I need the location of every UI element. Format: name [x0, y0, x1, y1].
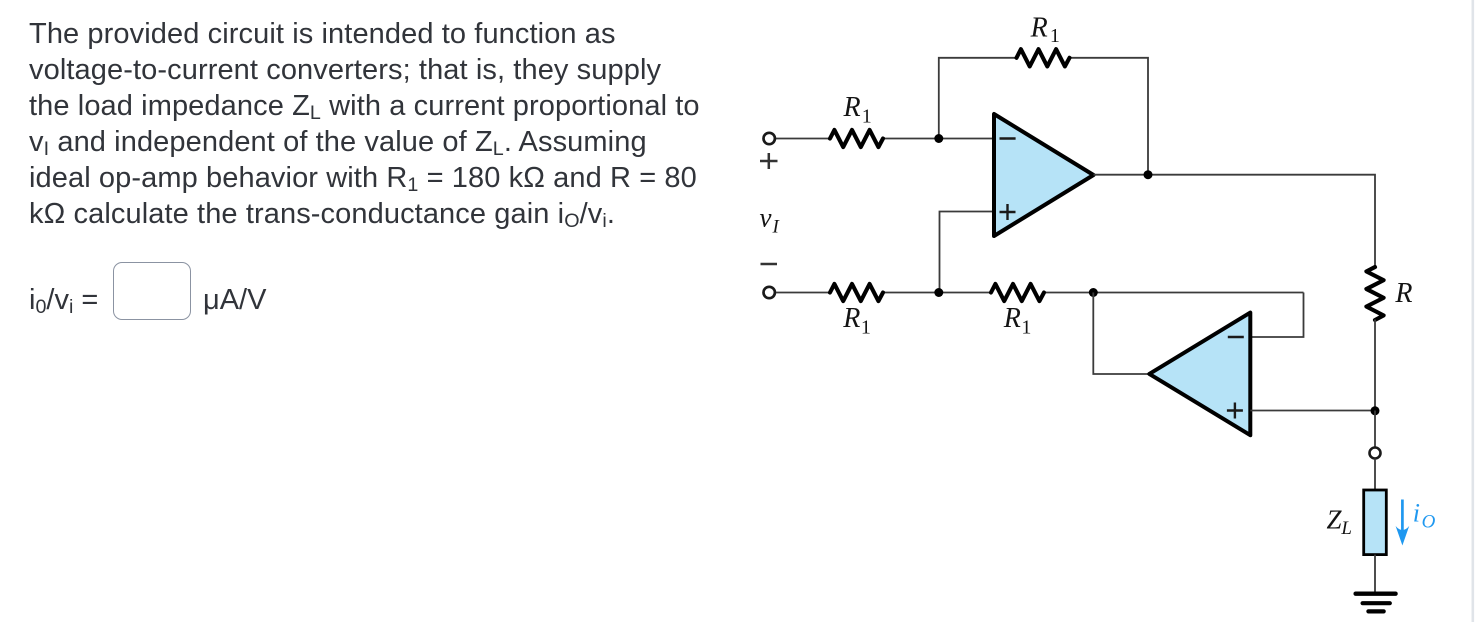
svg-text:1: 1 [1050, 25, 1060, 47]
plus sign at input [760, 153, 778, 169]
minus sign inside U2 [1228, 336, 1244, 338]
wire: load node down to terminal [1374, 411, 1376, 448]
wire: bottom input wire [776, 292, 1304, 294]
svg-text:R: R [1003, 303, 1021, 334]
wire: ZL to ground [1374, 555, 1376, 592]
svg-text:R: R [843, 92, 861, 123]
svg-text:1: 1 [1021, 316, 1031, 338]
resistor R1 (feedback top) [1017, 49, 1070, 66]
svg-text:R: R [842, 303, 860, 334]
svg-text:R: R [1030, 12, 1048, 43]
wire: terminal to ZL [1374, 459, 1376, 491]
terminal: top input open circle [764, 133, 775, 144]
junction node bottom wire / plus branch [934, 288, 943, 297]
svg-text:O: O [1422, 512, 1436, 533]
wire: below R to load node [1374, 320, 1376, 411]
plus sign inside U1 [1000, 204, 1016, 220]
label R1 (bottom-left) [842, 303, 871, 338]
svg-text:1: 1 [861, 316, 871, 338]
svg-text:1: 1 [862, 106, 872, 128]
wire: U2 inverting input branch [1250, 293, 1303, 338]
wire: top input wire [776, 138, 994, 140]
label iO (blue) [1413, 499, 1436, 533]
junction node on U1 output [1144, 170, 1153, 179]
svg-text:L: L [1340, 518, 1352, 539]
op-amp U2 (points left) [1149, 313, 1250, 436]
plus sign inside U2 [1227, 403, 1243, 419]
terminal: bottom input open circle [764, 287, 775, 298]
svg-text:I: I [772, 217, 781, 238]
op-amp U1 [994, 114, 1094, 236]
resistor R1 (bottom-middle) [991, 284, 1044, 301]
wire: branch down to U2 output [1093, 293, 1150, 375]
wire: U1 noninverting input branch [940, 212, 995, 293]
junction node at load tap [1371, 406, 1380, 415]
resistor R (vertical) [1366, 267, 1383, 320]
ground [1356, 594, 1396, 612]
label vI [760, 203, 781, 238]
minus sign inside U1 [1000, 137, 1016, 139]
terminal: open circle above ZL [1370, 448, 1381, 459]
label R1 (bottom-middle) [1003, 303, 1032, 338]
svg-text:R: R [1394, 278, 1412, 309]
wire: U2 noninverting input to load node [1250, 410, 1375, 412]
decorative right divider [1472, 0, 1475, 622]
label R1 (top-left) [843, 92, 872, 128]
svg-text:i: i [1413, 499, 1420, 528]
resistor R1 (top-left series) [830, 130, 883, 147]
svg-text:v: v [760, 203, 772, 233]
svg-text:Z: Z [1327, 504, 1343, 534]
current arrow iO [1396, 500, 1410, 546]
label R1 (feedback) [1030, 12, 1060, 46]
wire: U1 output to right column [1094, 175, 1376, 267]
label ZL [1327, 504, 1352, 539]
wire: feedback loop of op-amp U1 [939, 58, 1148, 175]
minus sign at input [761, 263, 778, 266]
junction node on bottom wire at U2 branch [1089, 288, 1098, 297]
junction node at U1 inverting input [934, 134, 943, 143]
load ZL (rectangle) [1364, 490, 1387, 555]
resistor R1 (bottom-left series) [830, 284, 883, 301]
